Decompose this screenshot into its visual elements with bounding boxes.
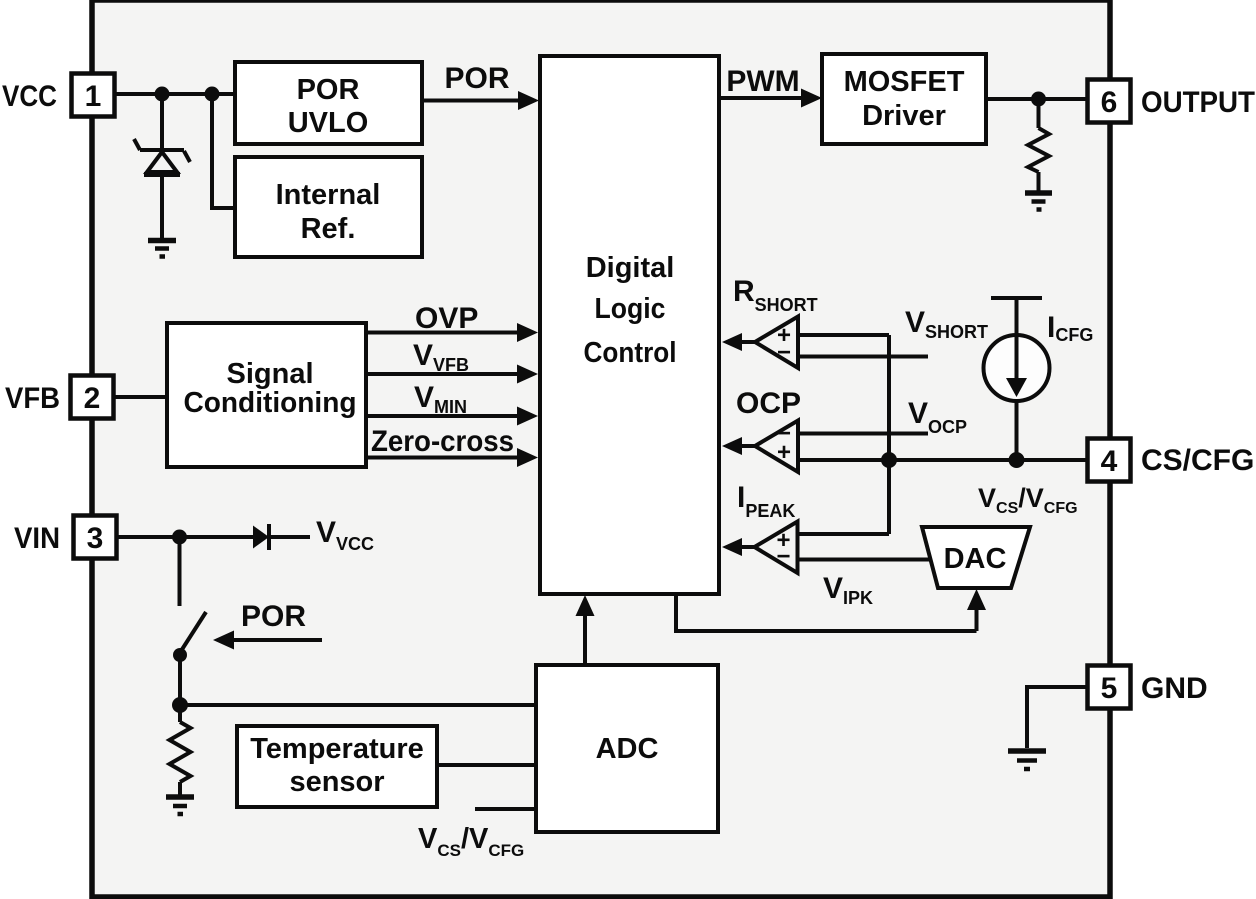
svg-text:ADC: ADC [596,733,659,765]
svg-text:Signal: Signal [226,358,313,390]
block: Digital Logic Control [540,56,719,594]
pin 2 box [71,376,114,419]
svg-text:POR: POR [444,62,509,95]
pin 1 box [72,74,115,117]
node: VCC junction to zener [155,87,170,102]
svg-text:Digital: Digital [586,252,675,284]
pin 5 box [1088,666,1131,709]
block: Internal Ref. [235,157,422,257]
wire: I_PEAK + input from sense bus [798,532,890,536]
wire: Temperature sensor to ADC [437,763,536,767]
svg-text:OUTPUT: OUTPUT [1141,86,1255,119]
svg-text:3: 3 [87,522,104,555]
current source I_CFG [984,298,1050,460]
svg-text:sensor: sensor [289,766,384,798]
ground (GND pin) [1008,751,1046,769]
wire+arrow: POR into Digital Logic Control [422,91,539,110]
svg-text:Temperature: Temperature [250,733,424,765]
wire: V_CS/V_CFG into ADC [475,807,536,811]
svg-text:VIN: VIN [14,522,60,555]
node: VIN junction [172,530,187,545]
svg-text:Internal: Internal [276,179,381,211]
wire: branch to Internal Ref [212,94,235,208]
wire: pin 5 to ground [1027,687,1087,748]
svg-text:Ref.: Ref. [301,213,356,245]
block: MOSFET Driver [822,54,986,144]
svg-text:VFB: VFB [5,382,60,415]
svg-text:OCP: OCP [736,387,801,420]
diode (VIN to VCC) [253,524,310,550]
pin 3 box [74,516,117,559]
ground (VIN resistor) [166,797,194,814]
wire+arrow: V_VFB to DLC [366,365,538,384]
zener diode (VCC clamp) [134,94,190,238]
svg-text:MOSFET: MOSFET [844,66,965,98]
resistor (output load) [1028,99,1049,191]
wire: VCC pin to POR UVLO [114,92,235,96]
svg-text:−: − [777,339,791,366]
svg-text:UVLO: UVLO [288,107,369,139]
svg-text:OVP: OVP [415,302,478,335]
comparator OCP [722,420,798,472]
node: VCC junction to Internal Ref [205,87,220,102]
block: Signal Conditioning [167,323,366,467]
node: sense bus junction [881,452,897,468]
svg-text:PWM: PWM [726,65,799,98]
DAC block (trapezoid) [922,527,1030,588]
svg-text:Control: Control [584,337,677,369]
comparator R_SHORT [722,317,798,369]
wire: VIN pin to diode [116,535,253,539]
wire+arrow: PWM to MOSFET Driver [719,89,822,108]
wire: VIN branch down to switch [178,537,182,606]
svg-text:POR: POR [241,600,306,633]
resistor (VIN divider) [170,705,191,795]
svg-text:−: − [776,543,790,570]
block: POR UVLO [235,62,422,144]
node: I_CFG junction [1009,452,1025,468]
arrow: POR control [213,631,322,650]
svg-text:+: + [777,439,791,466]
svg-text:Logic: Logic [595,293,666,325]
svg-text:Conditioning: Conditioning [184,387,357,419]
comparator I_PEAK [722,522,798,574]
wire+arrow: OVP to DLC [366,323,538,342]
svg-text:Driver: Driver [862,100,946,132]
wire: MOSFET Driver to pin 6 [986,97,1087,101]
block: ADC [536,665,718,832]
svg-text:CS/CFG: CS/CFG [1141,444,1254,477]
wire+arrow: Zero-cross to DLC [366,448,538,467]
wire: R_SHORT - input (V_SHORT ref) [798,355,928,359]
pin 4 box [1088,439,1131,482]
svg-text:6: 6 [1101,86,1118,119]
ground (zener) [148,241,176,257]
wire+arrow: ADC to DLC [576,595,595,665]
wire+arrow: V_MIN to DLC [366,407,538,426]
wire: CS sense line to pin 4 [798,458,1087,462]
wire: junction to ADC [180,703,536,707]
svg-text:2: 2 [84,382,101,415]
svg-text:GND: GND [1141,672,1208,705]
pin 6 box [1088,80,1131,123]
svg-text:1: 1 [85,80,102,113]
wire: OCP - input (V_OCP ref) [798,432,928,436]
switch (POR controlled) [173,612,206,705]
svg-text:5: 5 [1101,672,1118,705]
wire: R_SHORT + input [798,333,889,337]
node: sense divider junction [172,697,188,713]
wire: I_PEAK - input from DAC [798,558,932,562]
svg-text:DAC: DAC [944,543,1007,575]
wire+arrow: DLC to DAC input [676,589,986,631]
ground (output resistor) [1025,193,1052,210]
svg-text:4: 4 [1101,445,1118,478]
wire: sense vertical bus [887,335,891,534]
svg-text:Zero-cross: Zero-cross [371,425,514,458]
node: output junction [1031,92,1046,107]
block: Temperature sensor [237,726,437,807]
wire: VFB pin to Signal Conditioning [113,395,167,399]
svg-text:VCC: VCC [2,80,57,113]
svg-text:POR: POR [297,74,360,106]
